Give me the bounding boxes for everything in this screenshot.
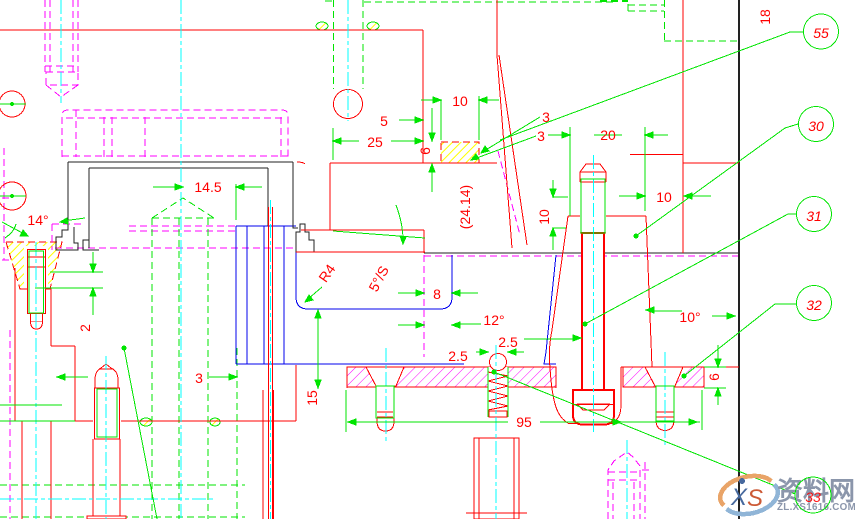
thread green guide bolt left [29, 251, 44, 313]
latch step dashed green [600, 0, 739, 41]
magenta left edge hidden lines [2, 148, 12, 519]
cavity insert magenta dashed cap [62, 110, 288, 157]
svg-text:6: 6 [417, 147, 433, 155]
dim text 10deg [679, 309, 700, 325]
dim text S/5 rotated [365, 263, 392, 294]
guide dashed green vertical [236, 348, 238, 519]
watermark XS letters [730, 478, 763, 512]
svg-text:S: S [747, 485, 763, 512]
dim 6 gate [429, 108, 435, 192]
lifter pin red [580, 164, 606, 233]
stripper hidden vertical magenta [423, 255, 425, 357]
svg-text:20: 20 [600, 127, 616, 143]
sprue circle red [334, 90, 363, 119]
dim text R4 rotated [315, 261, 338, 285]
core pin leader green [60, 218, 85, 224]
leader balloon 31 [583, 214, 797, 326]
svg-text:3: 3 [542, 109, 550, 125]
base line red [75, 365, 296, 421]
ejector rod block red [466, 438, 527, 519]
svg-text:15: 15 [304, 390, 320, 406]
balloon 33 [795, 477, 831, 513]
dim text 5 [380, 113, 388, 129]
svg-text:3: 3 [537, 128, 545, 144]
svg-text:10: 10 [656, 189, 672, 205]
centerline ejector sleeve [180, 0, 182, 519]
dim 3 bottom left [57, 374, 237, 380]
spring red [488, 367, 508, 417]
svg-text:18: 18 [757, 9, 773, 25]
ejector pin long red [263, 207, 274, 519]
dim 15 vertical [315, 310, 321, 388]
angle pin hidden line magenta [498, 151, 520, 235]
centerline screw top-left [60, 0, 62, 103]
leader balloon 32 [682, 304, 797, 378]
dim text 18 rotated [757, 9, 773, 25]
centerline lifter pin [593, 155, 595, 432]
bolt hidden top-left magenta [45, 0, 78, 97]
dim text 8 [433, 286, 441, 302]
dim text 3 upper [542, 109, 550, 125]
dim 2.5 lower [476, 349, 524, 355]
svg-text:10: 10 [452, 93, 468, 109]
riser red lines bottom-left [347, 367, 556, 388]
centerline support pin [626, 440, 628, 519]
screw mid red [366, 367, 404, 431]
svg-text:X: X [730, 484, 748, 511]
hatch: locating block yellow trapezoid [6, 242, 62, 289]
dim text 2.5 lower [448, 348, 468, 364]
top plate red line [0, 29, 423, 31]
core plate black parting line [424, 252, 739, 254]
dim 2 left [35, 252, 103, 315]
long leader lower left [122, 346, 157, 519]
screw right red [645, 367, 683, 431]
slide angled red lines [497, 0, 527, 248]
dim text 14deg [27, 212, 48, 228]
runner dashed green top [364, 1, 617, 3]
dim 10 wedge vertical [550, 180, 568, 250]
lifter wedge red outline [549, 216, 652, 424]
dim text 20 [600, 127, 616, 143]
dim 6 right [704, 345, 726, 405]
svg-text:25: 25 [367, 134, 383, 150]
dim 10 top [421, 96, 499, 140]
dim 12 arrows [398, 322, 481, 328]
svg-text:6: 6 [706, 373, 722, 381]
dim text 25 [367, 134, 383, 150]
magenta hidden pair under core [129, 226, 235, 231]
sprue bush dashed green [325, 0, 363, 89]
cavity pocket red outline [296, 30, 497, 253]
magenta dashed parting ledge [55, 247, 296, 249]
hatch: ejector retainer strip right block [623, 367, 704, 387]
svg-text:31: 31 [806, 208, 822, 224]
dim text 6 right rotated [706, 373, 722, 381]
leader balloon 30 [634, 124, 798, 238]
ejector sleeve tent dashed green [152, 198, 214, 519]
dim text 2.5 upper [498, 334, 518, 350]
dim text 12deg [483, 312, 504, 328]
thread green lifter pin [581, 179, 605, 233]
watermark logo swoosh [716, 470, 781, 519]
svg-text:5: 5 [380, 113, 388, 129]
svg-text:10°: 10° [679, 309, 700, 325]
dim 25 [333, 128, 423, 160]
dim text 10 top [452, 93, 468, 109]
centerline spring [495, 345, 497, 519]
leader balloon 33 [492, 370, 795, 494]
centerline return pin [105, 356, 107, 519]
guide bolt left red [28, 250, 46, 330]
dim 2.5 upper [524, 335, 581, 341]
svg-text:32: 32 [806, 297, 822, 313]
dim 20 lifter [548, 127, 668, 216]
svg-text:10: 10 [536, 209, 552, 225]
svg-text:2: 2 [77, 324, 93, 332]
svg-text:(24.14): (24.14) [457, 185, 473, 229]
balloon 55 [804, 14, 839, 49]
hatch marks small [140, 22, 379, 426]
small magenta dashes bottom far right [642, 462, 652, 519]
dim 10 lifter offset [619, 193, 711, 199]
centerline horizontal bottom [0, 498, 214, 500]
dim text 3 lower [537, 128, 545, 144]
dim 12deg arc [333, 205, 425, 244]
plate edge green left [0, 405, 75, 421]
hatch: gate insert yellow box [441, 142, 479, 163]
dim text 3 left [195, 370, 203, 386]
support red block right [630, 0, 739, 367]
svg-text:33: 33 [805, 489, 821, 505]
dim text 10 wedge rotated [536, 209, 552, 225]
centerline screw mid [385, 348, 387, 442]
dim 5 top [399, 117, 423, 123]
core insert black outline [56, 162, 314, 252]
svg-text:95: 95 [516, 414, 532, 430]
hatch: ejector retainer strip left block [347, 367, 556, 387]
svg-text:3: 3 [195, 370, 203, 386]
dim text (24.14) rotated [457, 185, 473, 229]
leader balloon 55 [500, 32, 803, 140]
dim text 10 right [656, 189, 672, 205]
parting line hidden magenta [424, 255, 739, 257]
ejector plate dashed green horizontals [0, 485, 245, 517]
thread green screw mid [376, 386, 394, 418]
dim text 6 rotated [417, 147, 433, 155]
dim text 2 rotated [77, 324, 93, 332]
svg-text:55: 55 [813, 25, 829, 41]
support pin hidden house magenta [608, 452, 640, 519]
dim 14.5 [153, 184, 262, 220]
thread green return pin [97, 389, 117, 437]
balloon 31 [797, 197, 832, 232]
dim 14deg ticks [2, 222, 28, 238]
svg-text:2.5: 2.5 [498, 334, 518, 350]
leader 3 3 chamfer [471, 117, 540, 160]
svg-text:14.5: 14.5 [194, 179, 221, 195]
dim text 14.5 [194, 179, 221, 195]
dim 95 line [346, 390, 702, 432]
centerline sprue [347, 0, 349, 121]
watermark url text [777, 502, 855, 513]
svg-text:30: 30 [808, 118, 824, 134]
centerline bolt left [35, 242, 37, 519]
svg-text:14°: 14° [27, 212, 48, 228]
dim text 95 [516, 414, 532, 430]
balloon 30 [799, 107, 834, 142]
svg-text:2.5: 2.5 [448, 348, 468, 364]
dim 10deg arrows [646, 307, 735, 319]
watermark chinese text [777, 476, 855, 506]
spring pocket green walls [488, 367, 508, 417]
dim text 15 rotated [304, 390, 320, 406]
frame border black vertical [738, 0, 740, 519]
guide hole center ticks green [0, 103, 26, 198]
svg-text:12°: 12° [483, 312, 504, 328]
thread green screw right [656, 386, 674, 421]
left pocket red steps [15, 268, 75, 519]
svg-text:8: 8 [433, 286, 441, 302]
balloon 32 [797, 286, 832, 321]
magenta dashes near core foot [52, 224, 82, 250]
centerline screw right [664, 352, 666, 448]
leader R4 [305, 287, 322, 302]
dim 8 [398, 290, 478, 296]
centerline ejector pin [270, 200, 272, 519]
guide holes red circles left [0, 91, 26, 210]
return pin red [87, 364, 126, 519]
stripper plate blue outline [236, 226, 556, 364]
